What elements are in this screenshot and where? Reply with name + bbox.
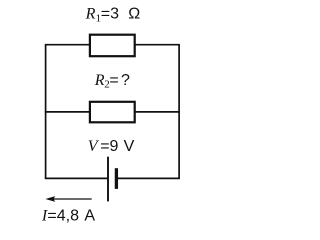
svg-text:V: V bbox=[88, 138, 100, 155]
svg-text:V: V bbox=[124, 138, 135, 155]
svg-text:Ω: Ω bbox=[128, 6, 140, 23]
svg-text:?: ? bbox=[121, 72, 130, 89]
battery V: positive plate (long thin) bbox=[107, 157, 109, 202]
battery V: negative plate (short thick) bbox=[115, 168, 118, 189]
wire: top branch left segment bbox=[45, 44, 91, 46]
svg-text:A: A bbox=[84, 207, 95, 224]
svg-text:=4,8: =4,8 bbox=[47, 207, 79, 224]
resistor R1 bbox=[90, 35, 135, 57]
wire: top branch right segment bbox=[134, 44, 180, 46]
svg-text:R: R bbox=[94, 72, 105, 89]
wire: middle branch left segment bbox=[45, 111, 91, 113]
wire: right vertical branch bbox=[178, 45, 180, 179]
resistor R2 bbox=[90, 102, 135, 123]
current arrow I head bbox=[45, 196, 55, 202]
svg-text:R: R bbox=[85, 6, 96, 23]
wire: bottom branch right segment bbox=[116, 177, 179, 179]
svg-text:=3: =3 bbox=[101, 6, 119, 23]
current arrow I (pointing left) bbox=[53, 198, 92, 200]
svg-text:=: = bbox=[109, 72, 118, 89]
wire: middle branch right segment bbox=[134, 111, 180, 113]
wire: bottom branch left segment bbox=[45, 177, 108, 179]
wire: left vertical branch bbox=[45, 45, 47, 179]
svg-text:=9: =9 bbox=[100, 138, 118, 155]
